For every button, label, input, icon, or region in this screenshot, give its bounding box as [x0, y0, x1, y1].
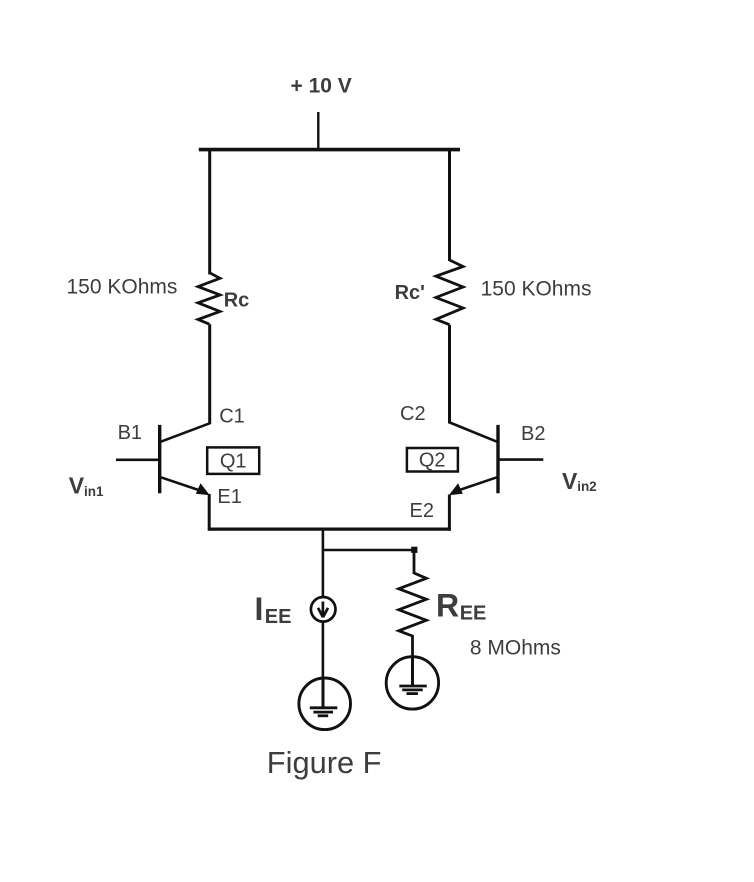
wire left collector drop (Rc to Q1)	[208, 324, 211, 424]
wire +10V stub	[317, 112, 319, 151]
svg-text:Rc': Rc'	[395, 282, 425, 304]
wire top supply rail	[199, 148, 460, 152]
svg-text:Figure F: Figure F	[267, 745, 382, 780]
label Vin1	[69, 473, 104, 500]
wire IEE to ground	[322, 622, 325, 680]
svg-text:E1: E1	[217, 486, 241, 508]
svg-text:V: V	[562, 468, 578, 494]
resistor REE	[399, 573, 427, 636]
transistor Q2	[449, 423, 544, 496]
wire stub to REE branch	[323, 549, 414, 552]
transistor Q1	[116, 423, 210, 495]
svg-text:in2: in2	[577, 479, 597, 494]
wire left collector drop (rail to Rc)	[208, 148, 211, 275]
wire right collector drop (Rc' to Q2)	[448, 325, 451, 424]
label REE	[436, 588, 486, 625]
wire REE top lead	[413, 550, 416, 574]
wire right collector drop (rail to Rc')	[448, 148, 451, 261]
svg-text:Q1: Q1	[220, 451, 247, 473]
wire bottom emitter rail	[208, 527, 451, 530]
svg-text:I: I	[255, 591, 264, 627]
svg-text:E2: E2	[410, 500, 434, 522]
svg-text:V: V	[69, 473, 85, 499]
wire Q2 emitter drop	[448, 495, 451, 531]
svg-text:C1: C1	[219, 405, 245, 427]
svg-text:+ 10 V: + 10 V	[291, 75, 352, 98]
wire IEE branch drop	[322, 529, 325, 598]
svg-text:EE: EE	[265, 606, 292, 628]
resistor Rc'	[436, 260, 463, 325]
wire Q1 emitter drop	[208, 494, 211, 531]
svg-text:R: R	[436, 588, 459, 624]
svg-text:Q2: Q2	[419, 450, 446, 472]
ground (IEE branch)	[299, 678, 351, 730]
wire REE bottom lead	[411, 635, 414, 658]
ground (REE branch)	[386, 657, 438, 709]
svg-text:C2: C2	[400, 403, 426, 425]
label IEE	[255, 591, 292, 628]
svg-text:150 KOhms: 150 KOhms	[481, 278, 592, 301]
svg-text:Rc: Rc	[224, 289, 250, 311]
svg-text:in1: in1	[84, 484, 104, 499]
resistor Rc	[198, 273, 220, 324]
svg-text:150 KOhms: 150 KOhms	[67, 276, 178, 299]
label Q2 (boxed)	[407, 448, 458, 472]
svg-text:8 MOhms: 8 MOhms	[470, 637, 561, 660]
svg-text:EE: EE	[460, 602, 487, 624]
svg-text:B2: B2	[521, 423, 545, 445]
label Q1 (boxed)	[207, 447, 259, 474]
junction dot	[411, 547, 417, 553]
label Vin2	[562, 468, 597, 494]
current source IEE symbol	[311, 597, 336, 622]
svg-text:B1: B1	[118, 422, 142, 444]
